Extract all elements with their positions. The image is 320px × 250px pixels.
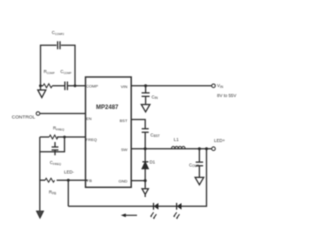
- svg-text:VIN: VIN: [217, 83, 224, 89]
- svg-text:VIN: VIN: [121, 84, 128, 89]
- svg-text:L1: L1: [174, 137, 179, 142]
- svg-text:LED-: LED-: [64, 170, 75, 175]
- svg-text:RFB: RFB: [49, 190, 56, 196]
- svg-text:D1: D1: [150, 160, 156, 165]
- svg-text:8V to 55V: 8V to 55V: [217, 93, 236, 98]
- svg-text:CONTROL: CONTROL: [12, 114, 36, 120]
- svg-text:MP2487: MP2487: [96, 105, 119, 111]
- svg-text:CFREQ: CFREQ: [50, 160, 62, 166]
- svg-text:RFREQ: RFREQ: [53, 126, 65, 132]
- svg-text:FB: FB: [87, 178, 92, 183]
- svg-text:EN: EN: [86, 116, 92, 121]
- svg-text:BST: BST: [120, 118, 128, 123]
- svg-text:CBST: CBST: [150, 132, 159, 138]
- svg-text:LED+: LED+: [214, 138, 226, 143]
- svg-text:SW: SW: [121, 147, 128, 152]
- svg-text:CIN: CIN: [152, 94, 159, 100]
- svg-text:COMP: COMP: [86, 83, 98, 88]
- svg-text:COUT: COUT: [189, 162, 199, 168]
- svg-text:GND: GND: [119, 178, 128, 183]
- svg-text:FREQ: FREQ: [86, 137, 97, 142]
